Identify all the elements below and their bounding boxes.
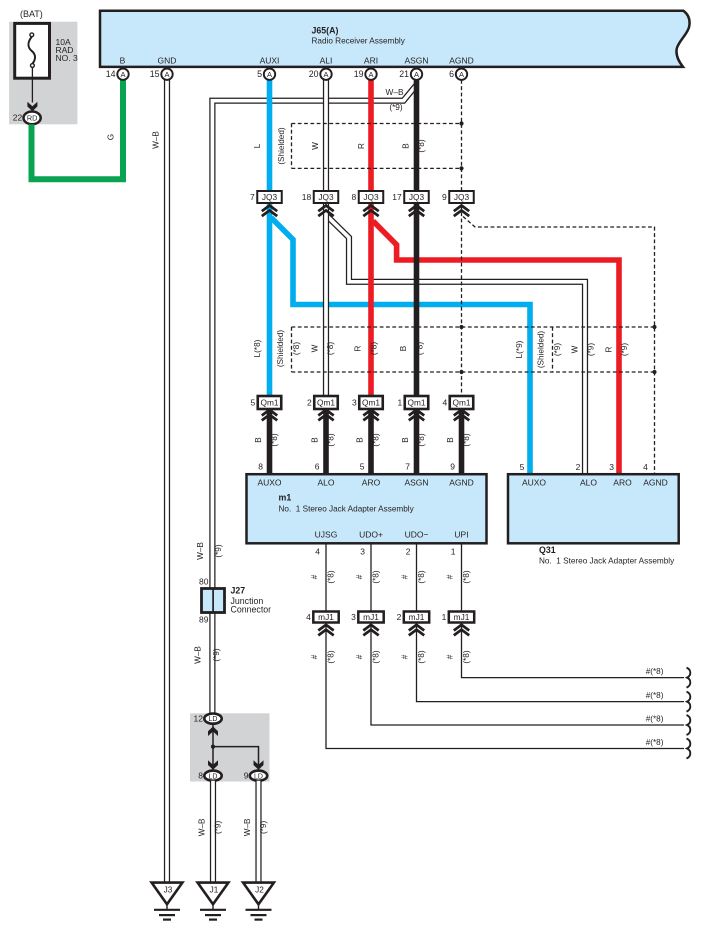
svg-text:No. 1 Stereo Jack Adapter Ass: No. 1 Stereo Jack Adapter Assembly: [539, 557, 675, 566]
svg-text:(*8): (*8): [417, 139, 426, 152]
svg-text:#(*8): #(*8): [646, 667, 664, 676]
svg-text:6: 6: [315, 462, 320, 472]
svg-text:A: A: [120, 70, 125, 79]
svg-text:(Shielded): (Shielded): [537, 331, 546, 369]
wire B (*8) from Qm1 to m1 AUXO: [267, 409, 273, 474]
svg-text:(*8): (*8): [416, 342, 425, 355]
svg-text:AUXO: AUXO: [522, 478, 546, 488]
chevron mark below Qm1: [454, 410, 469, 421]
connector 12 LD: [204, 714, 221, 724]
svg-text:B: B: [355, 437, 364, 443]
svg-text:7: 7: [250, 192, 255, 202]
chevron mark below mJ1: [363, 625, 378, 636]
arrow into LD 12: [208, 727, 218, 737]
svg-text:(*9): (*9): [553, 343, 562, 356]
svg-text:J65(A): J65(A): [312, 26, 339, 36]
connector Qm1 pin 3: [352, 396, 383, 409]
svg-text:#(*8): #(*8): [646, 691, 664, 700]
svg-text:No. 1 Stereo Jack Adapter Ass: No. 1 Stereo Jack Adapter Assembly: [279, 505, 415, 514]
svg-text:(*9): (*9): [620, 343, 629, 356]
break squiggle: [687, 715, 691, 735]
svg-text:18: 18: [302, 192, 312, 202]
chevron mark below Qm1: [409, 410, 424, 421]
arrow into LD 8: [208, 760, 218, 770]
wire L (blue) AUXI column from pin 5 to Qm1-5: [267, 80, 273, 397]
svg-text:AGND: AGND: [449, 55, 474, 65]
svg-text:AGND: AGND: [449, 478, 474, 488]
break squiggle: [687, 692, 691, 712]
svg-text:W: W: [311, 142, 320, 150]
svg-text:W–B: W–B: [198, 818, 207, 836]
svg-text:R: R: [357, 143, 366, 149]
svg-text:4: 4: [643, 462, 648, 472]
svg-text:LD: LD: [209, 716, 218, 723]
svg-text:UDO+: UDO+: [359, 530, 383, 540]
svg-text:LD: LD: [254, 773, 263, 780]
svg-text:LD: LD: [209, 773, 218, 780]
wire B (black) ASGN column from pin 21 to Qm1-1: [414, 80, 420, 397]
wire # (*8) from m1 UDO- to mJ1: [416, 543, 418, 611]
svg-text:#: #: [401, 654, 410, 659]
svg-text:UJSG: UJSG: [315, 530, 338, 540]
connector 8 LD: [204, 771, 221, 781]
svg-text:ASGN: ASGN: [404, 478, 428, 488]
wire from fuse to connector 22 RD: [31, 67, 33, 102]
wire # (*8) from m1 UDO+ to mJ1: [370, 543, 372, 611]
svg-text:ALI: ALI: [320, 55, 333, 65]
chevron mark below Qm1: [262, 410, 277, 421]
svg-text:#: #: [446, 654, 455, 659]
wire R (red) ARI column from pin 19 to Qm1-3: [368, 80, 374, 397]
connector JQ3 pin 9: [442, 191, 474, 203]
wire B (*8) from Qm1 to m1 ASGN: [414, 409, 420, 474]
connector JQ3 pin 8: [352, 191, 384, 203]
shield drain dashed branch from JQ3-9 to Q31 AGND: [463, 217, 655, 475]
svg-text:5: 5: [360, 462, 365, 472]
wire # (*8) from mJ1 x=416.5 to page break: [417, 623, 685, 702]
chevron mark below mJ1: [454, 625, 469, 636]
svg-text:W–B: W–B: [152, 131, 161, 149]
chevron mark below JQ3: [262, 206, 277, 217]
LD splice gray background: [190, 713, 270, 781]
svg-text:(*8): (*8): [327, 433, 336, 446]
svg-text:2: 2: [576, 462, 581, 472]
junction dots row1 shield: [459, 121, 463, 125]
pin 19 A: [354, 69, 377, 80]
svg-text:6: 6: [449, 69, 454, 79]
svg-text:12: 12: [194, 714, 204, 724]
wire R (red) branch from JQ3-8 to Q31 ARO: [373, 221, 619, 474]
svg-text:B: B: [120, 55, 126, 65]
svg-text:W: W: [571, 345, 580, 353]
svg-text:4: 4: [315, 547, 320, 557]
break squiggle: [687, 739, 691, 759]
connector mJ1 pin 1: [442, 612, 475, 623]
svg-text:(*8): (*8): [462, 433, 471, 446]
wire # (*8) from m1 UPI to mJ1: [461, 543, 463, 611]
svg-text:Qm1: Qm1: [261, 398, 279, 408]
connector JQ3 pin 17: [392, 191, 428, 203]
svg-text:9: 9: [450, 462, 455, 472]
pin 14 A: [106, 69, 129, 80]
connector 22 RD: [23, 112, 40, 125]
wire B (*8) from Qm1 to m1 AGND: [459, 409, 465, 474]
svg-text:J1: J1: [210, 885, 219, 894]
svg-text:5: 5: [251, 398, 256, 408]
pin 21 A: [399, 69, 422, 80]
svg-text:B: B: [310, 437, 319, 443]
svg-text:(*8): (*8): [270, 433, 279, 446]
svg-text:#: #: [446, 574, 455, 579]
svg-text:1: 1: [442, 612, 447, 622]
svg-text:(*9): (*9): [389, 102, 403, 112]
svg-text:8: 8: [352, 192, 357, 202]
break squiggle: [687, 668, 691, 688]
svg-text:(*8): (*8): [372, 650, 381, 663]
svg-text:#: #: [310, 654, 319, 659]
svg-text:9: 9: [442, 192, 447, 202]
svg-text:A: A: [459, 70, 464, 79]
svg-text:L(*9): L(*9): [515, 340, 524, 358]
svg-text:A: A: [267, 70, 272, 79]
svg-text:W–B: W–B: [194, 646, 203, 664]
svg-text:5: 5: [257, 69, 262, 79]
pin 5 A: [257, 69, 275, 80]
ground J3: [152, 883, 183, 920]
chevron mark below mJ1: [318, 625, 333, 636]
shield wire dashed AGND column pin 6 to Qm1-4: [461, 80, 463, 397]
svg-text:(*8): (*8): [417, 570, 426, 583]
svg-text:W–B: W–B: [196, 542, 205, 560]
ground J1: [198, 883, 229, 920]
junction dots row2 shields: [459, 325, 463, 329]
svg-text:A: A: [368, 70, 373, 79]
svg-text:(*8): (*8): [327, 650, 336, 663]
svg-text:#: #: [355, 574, 364, 579]
wire W-B from LD 9 to ground J2: [255, 781, 261, 883]
svg-text:mJ1: mJ1: [409, 612, 425, 622]
shielded box row2 right (*9) left edge: [552, 327, 554, 372]
svg-text:Radio Receiver Assembly: Radio Receiver Assembly: [312, 37, 406, 46]
svg-text:2: 2: [307, 398, 312, 408]
svg-text:B: B: [399, 345, 408, 351]
svg-text:J27: J27: [231, 586, 246, 596]
fuse element symbol: [28, 37, 35, 64]
svg-text:ARO: ARO: [613, 478, 632, 488]
svg-text:ARO: ARO: [362, 478, 381, 488]
fuse 10A RAD NO.3 box: [15, 23, 50, 78]
connector JQ3 pin 18: [302, 191, 338, 203]
svg-text:Qm1: Qm1: [362, 398, 380, 408]
svg-text:(BAT): (BAT): [20, 9, 43, 19]
svg-text:14: 14: [106, 69, 116, 79]
svg-text:(*8): (*8): [326, 342, 335, 355]
svg-text:JQ3: JQ3: [409, 192, 425, 202]
svg-text:8: 8: [198, 771, 203, 781]
svg-text:W–B: W–B: [386, 87, 404, 97]
wire W-B (*9) from ASGN pin 21 to junction connector J27 and LD block: [212, 86, 416, 715]
pin 20 A: [309, 69, 332, 80]
svg-text:Qm1: Qm1: [317, 398, 335, 408]
svg-text:RD: RD: [27, 114, 38, 123]
svg-text:AUXI: AUXI: [260, 55, 280, 65]
svg-text:(*8): (*8): [462, 570, 471, 583]
shielded box row2 left (*8): [292, 326, 655, 328]
svg-text:(*8): (*8): [292, 342, 301, 355]
junction connector J27: [202, 589, 225, 613]
svg-text:(*9): (*9): [214, 821, 223, 834]
svg-text:5: 5: [520, 462, 525, 472]
svg-text:W–B: W–B: [243, 818, 252, 836]
connector mJ1 pin 4: [306, 612, 339, 623]
svg-text:(*8): (*8): [417, 433, 426, 446]
svg-text:m1: m1: [279, 493, 292, 503]
J65(A) Radio Receiver Assembly box: [100, 11, 690, 67]
wire W-B from GND pin 15 down to ground J3: [164, 80, 170, 883]
svg-text:(*9): (*9): [259, 821, 268, 834]
svg-text:21: 21: [399, 69, 409, 79]
svg-text:4: 4: [306, 612, 311, 622]
svg-text:3: 3: [351, 612, 356, 622]
svg-text:UDO−: UDO−: [405, 530, 429, 540]
svg-text:mJ1: mJ1: [454, 612, 470, 622]
svg-text:Q31: Q31: [539, 545, 556, 555]
svg-text:mJ1: mJ1: [363, 612, 379, 622]
svg-text:(*8): (*8): [417, 650, 426, 663]
svg-text:(Shielded): (Shielded): [277, 127, 286, 165]
svg-text:20: 20: [309, 69, 319, 79]
svg-text:L(*8): L(*8): [253, 339, 262, 357]
wire # (*8) from mJ1 x=326 to page break: [326, 623, 684, 749]
svg-text:AUXO: AUXO: [257, 478, 281, 488]
svg-text:(*8): (*8): [372, 570, 381, 583]
svg-text:1: 1: [451, 547, 456, 557]
chevron mark below JQ3: [318, 206, 333, 217]
svg-text:GND: GND: [158, 55, 177, 65]
chevron mark below Qm1: [318, 410, 333, 421]
svg-text:3: 3: [609, 462, 614, 472]
svg-text:9: 9: [244, 771, 249, 781]
wire B (*8) from Qm1 to m1 ALO: [323, 409, 329, 474]
svg-text:R: R: [354, 345, 363, 351]
connector JQ3 pin 7: [250, 191, 282, 203]
svg-text:JQ3: JQ3: [454, 192, 470, 202]
svg-text:#: #: [401, 574, 410, 579]
connector mJ1 pin 3: [351, 612, 384, 623]
svg-text:(*9): (*9): [212, 648, 221, 661]
svg-text:G: G: [107, 134, 116, 140]
arrow into LD 9: [254, 760, 264, 770]
svg-text:3: 3: [360, 547, 365, 557]
svg-text:3: 3: [352, 398, 357, 408]
svg-text:2: 2: [406, 547, 411, 557]
connector Qm1 pin 2: [307, 396, 338, 409]
chevron mark below JQ3: [363, 206, 378, 217]
wire # (*8) from mJ1 x=461.5 to page break: [462, 623, 685, 678]
svg-text:2: 2: [397, 612, 402, 622]
svg-text:#: #: [310, 574, 319, 579]
pin 6 A: [449, 69, 467, 80]
svg-text:#(*8): #(*8): [646, 715, 664, 724]
wire W (white) branch from JQ3-18 to Q31 ALO: [328, 217, 586, 475]
wire W-B from LD 8 to ground J1: [210, 781, 216, 883]
shielded box row1 around W R B wires: [292, 123, 462, 125]
wire L (blue) branch from JQ3-7 to Q31 AUXO: [271, 218, 530, 475]
svg-text:W: W: [310, 344, 319, 352]
svg-text:(*8): (*8): [327, 570, 336, 583]
svg-text:ASGN: ASGN: [404, 55, 428, 65]
svg-text:A: A: [323, 70, 328, 79]
Q31 No.1 Stereo Jack Adapter Assembly box: [508, 474, 679, 543]
svg-text:NO. 3: NO. 3: [56, 53, 78, 63]
wire G (green) from connector RD to pin 14 B: [32, 80, 124, 179]
svg-text:UPI: UPI: [454, 530, 468, 540]
m1 No.1 Stereo Jack Adapter Assembly box: [247, 474, 487, 543]
wire W (white) ALI column from pin 20 to Qm1-2: [323, 80, 329, 397]
internal wiring of LD splice: [212, 724, 214, 771]
chevron mark below JQ3: [454, 206, 469, 217]
svg-text:8: 8: [258, 462, 263, 472]
svg-text:AGND: AGND: [643, 478, 668, 488]
svg-text:B: B: [402, 143, 411, 149]
svg-text:(*9): (*9): [214, 544, 223, 557]
ground J2: [243, 883, 274, 920]
svg-text:A: A: [164, 70, 169, 79]
svg-text:JQ3: JQ3: [318, 192, 334, 202]
chevron mark below mJ1: [409, 625, 424, 636]
svg-text:J2: J2: [255, 885, 264, 894]
svg-text:17: 17: [392, 192, 402, 202]
svg-text:(Shielded): (Shielded): [276, 330, 285, 368]
svg-text:1: 1: [398, 398, 403, 408]
svg-text:JQ3: JQ3: [363, 192, 379, 202]
connector 9 LD: [250, 771, 267, 781]
svg-text:Qm1: Qm1: [453, 398, 471, 408]
svg-text:19: 19: [354, 69, 364, 79]
svg-text:B: B: [254, 437, 263, 443]
svg-text:A: A: [414, 70, 419, 79]
svg-text:ALO: ALO: [580, 478, 597, 488]
wire # (*8) from m1 UJSG to mJ1: [325, 543, 327, 611]
connector Qm1 pin 1: [398, 396, 429, 409]
connector mJ1 pin 2: [397, 612, 430, 623]
svg-text:15: 15: [150, 69, 160, 79]
svg-text:(*8): (*8): [462, 650, 471, 663]
connector Qm1 pin 5: [251, 396, 282, 409]
pin 15 A: [150, 69, 173, 80]
svg-text:(*9): (*9): [587, 343, 596, 356]
chevron mark below JQ3: [409, 206, 424, 217]
svg-text:B: B: [401, 437, 410, 443]
svg-text:(*8): (*8): [372, 433, 381, 446]
svg-text:(*8): (*8): [369, 342, 378, 355]
svg-text:4: 4: [443, 398, 448, 408]
svg-text:J3: J3: [164, 885, 173, 894]
svg-text:ARI: ARI: [364, 55, 378, 65]
connector Qm1 pin 4: [443, 396, 474, 409]
svg-text:7: 7: [405, 462, 410, 472]
svg-text:#: #: [355, 654, 364, 659]
svg-text:22: 22: [13, 113, 23, 123]
svg-text:Connector: Connector: [231, 605, 272, 615]
svg-text:#(*8): #(*8): [646, 738, 664, 747]
svg-text:89: 89: [199, 615, 209, 625]
svg-text:80: 80: [199, 577, 209, 587]
svg-text:JQ3: JQ3: [262, 192, 278, 202]
wire B (*8) from Qm1 to m1 ARO: [368, 409, 374, 474]
svg-text:B: B: [446, 437, 455, 443]
svg-text:mJ1: mJ1: [318, 612, 334, 622]
svg-text:L: L: [253, 143, 262, 148]
svg-text:R: R: [605, 346, 614, 352]
chevron mark below Qm1: [363, 410, 378, 421]
wire # (*8) from mJ1 x=371 to page break: [371, 623, 684, 726]
fuse block gray background: [9, 22, 77, 125]
svg-text:ALO: ALO: [317, 478, 334, 488]
svg-text:Qm1: Qm1: [408, 398, 426, 408]
